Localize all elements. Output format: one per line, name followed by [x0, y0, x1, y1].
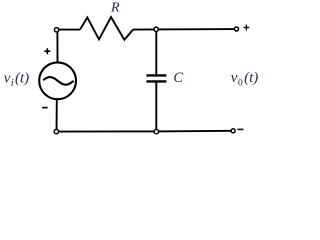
wire capacitor rail lower (bottom plate to node D) — [155, 82, 157, 131]
output terminal bottom-right — [231, 129, 235, 133]
capacitor C1 top plate — [146, 74, 166, 76]
capacitor C1 bottom plate — [146, 80, 166, 82]
svg-text:C: C — [173, 70, 183, 86]
wire top rail left (node A to resistor) — [57, 29, 80, 31]
wire bottom rail left (node C to node D) — [57, 130, 157, 132]
wire bottom rail right (node D to output terminal) — [156, 130, 233, 133]
source V1 sine wave — [44, 77, 73, 85]
output plus mark — [243, 25, 249, 31]
source minus polarity mark — [42, 107, 48, 109]
wire capacitor rail upper (node B down to top plate) — [155, 29, 157, 74]
wire left rail lower (source bottom to node C) — [56, 100, 58, 132]
node C open junction bottom-left — [54, 129, 58, 133]
wire left rail upper (node A down to source top) — [56, 30, 58, 62]
svg-text:R: R — [110, 1, 120, 16]
resistor R1 zigzag — [80, 17, 133, 40]
output terminal top-right — [235, 27, 239, 31]
source plus polarity mark — [44, 48, 50, 54]
node B open junction top-middle — [154, 27, 158, 31]
svg-text:v0(t): v0(t) — [231, 70, 258, 89]
node A open junction top-left — [54, 28, 58, 32]
source V1 circle — [39, 62, 76, 99]
wire top rail right (node B to output terminal) — [156, 28, 236, 30]
svg-text:vi(t): vi(t) — [4, 71, 29, 89]
wire top rail middle (resistor to node B) — [133, 28, 156, 30]
node D open junction bottom-middle — [154, 129, 158, 133]
output minus mark — [237, 128, 243, 130]
